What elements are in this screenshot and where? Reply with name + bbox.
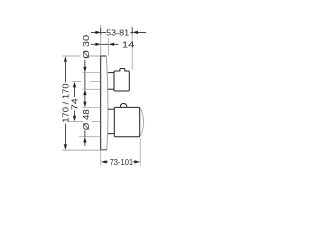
wall plate back edge — [100, 56, 107, 150]
extension: handle centerline (74) — [68, 121, 101, 123]
lower handle stem — [108, 109, 114, 133]
svg-text:14: 14 — [122, 40, 135, 50]
top knob body with top bump — [114, 69, 129, 92]
vertical extension: plate front above (14) — [107, 38, 109, 56]
extension: plate bottom — [62, 149, 106, 151]
top knob stem — [108, 73, 114, 90]
plate front curved face — [106, 56, 108, 150]
vertical extension: plate back below (73-101) — [100, 150, 102, 165]
extension: handle top (Ø48) — [82, 106, 100, 108]
dimension Ø48 (lower handle, arrows outside) — [83, 102, 86, 143]
extension: knob stem bottom (Ø30) — [82, 88, 100, 90]
lower handle top button — [120, 104, 127, 108]
extension: handle bottom (Ø48) — [79, 136, 100, 138]
svg-text:74: 74 — [69, 98, 79, 110]
dimension Ø30 (top knob, arrows outside) — [83, 67, 86, 95]
svg-text:53-81: 53-81 — [106, 27, 129, 37]
svg-text:Ø 30: Ø 30 — [81, 34, 91, 58]
extension: plate top — [62, 55, 100, 57]
lower handle convex front face — [140, 108, 143, 136]
dimension 73-101 (bottom row) — [101, 160, 140, 163]
tick dark segment on right ext at row1 — [131, 28, 133, 35]
vertical extension: knob front (53-81) — [131, 26, 133, 70]
lower handle body — [114, 107, 139, 136]
dimension 74 (centerlines, vertical) — [73, 82, 76, 122]
vertical extension: plate back above — [100, 25, 102, 56]
svg-text:73-101: 73-101 — [110, 157, 134, 167]
vertical extension: handle front below (73-101) — [139, 138, 141, 165]
extension: knob centerline (74) — [72, 81, 101, 83]
extension: knob stem top (Ø30) — [82, 72, 100, 74]
dimension 170/170 (left, vertical) — [64, 56, 67, 150]
tick dark segment on left ext at row1 — [100, 28, 102, 35]
dimension 53-81 (top row) — [91, 31, 146, 34]
dimension 14 (second row) — [91, 43, 118, 46]
svg-text:Ø 48: Ø 48 — [81, 109, 91, 130]
